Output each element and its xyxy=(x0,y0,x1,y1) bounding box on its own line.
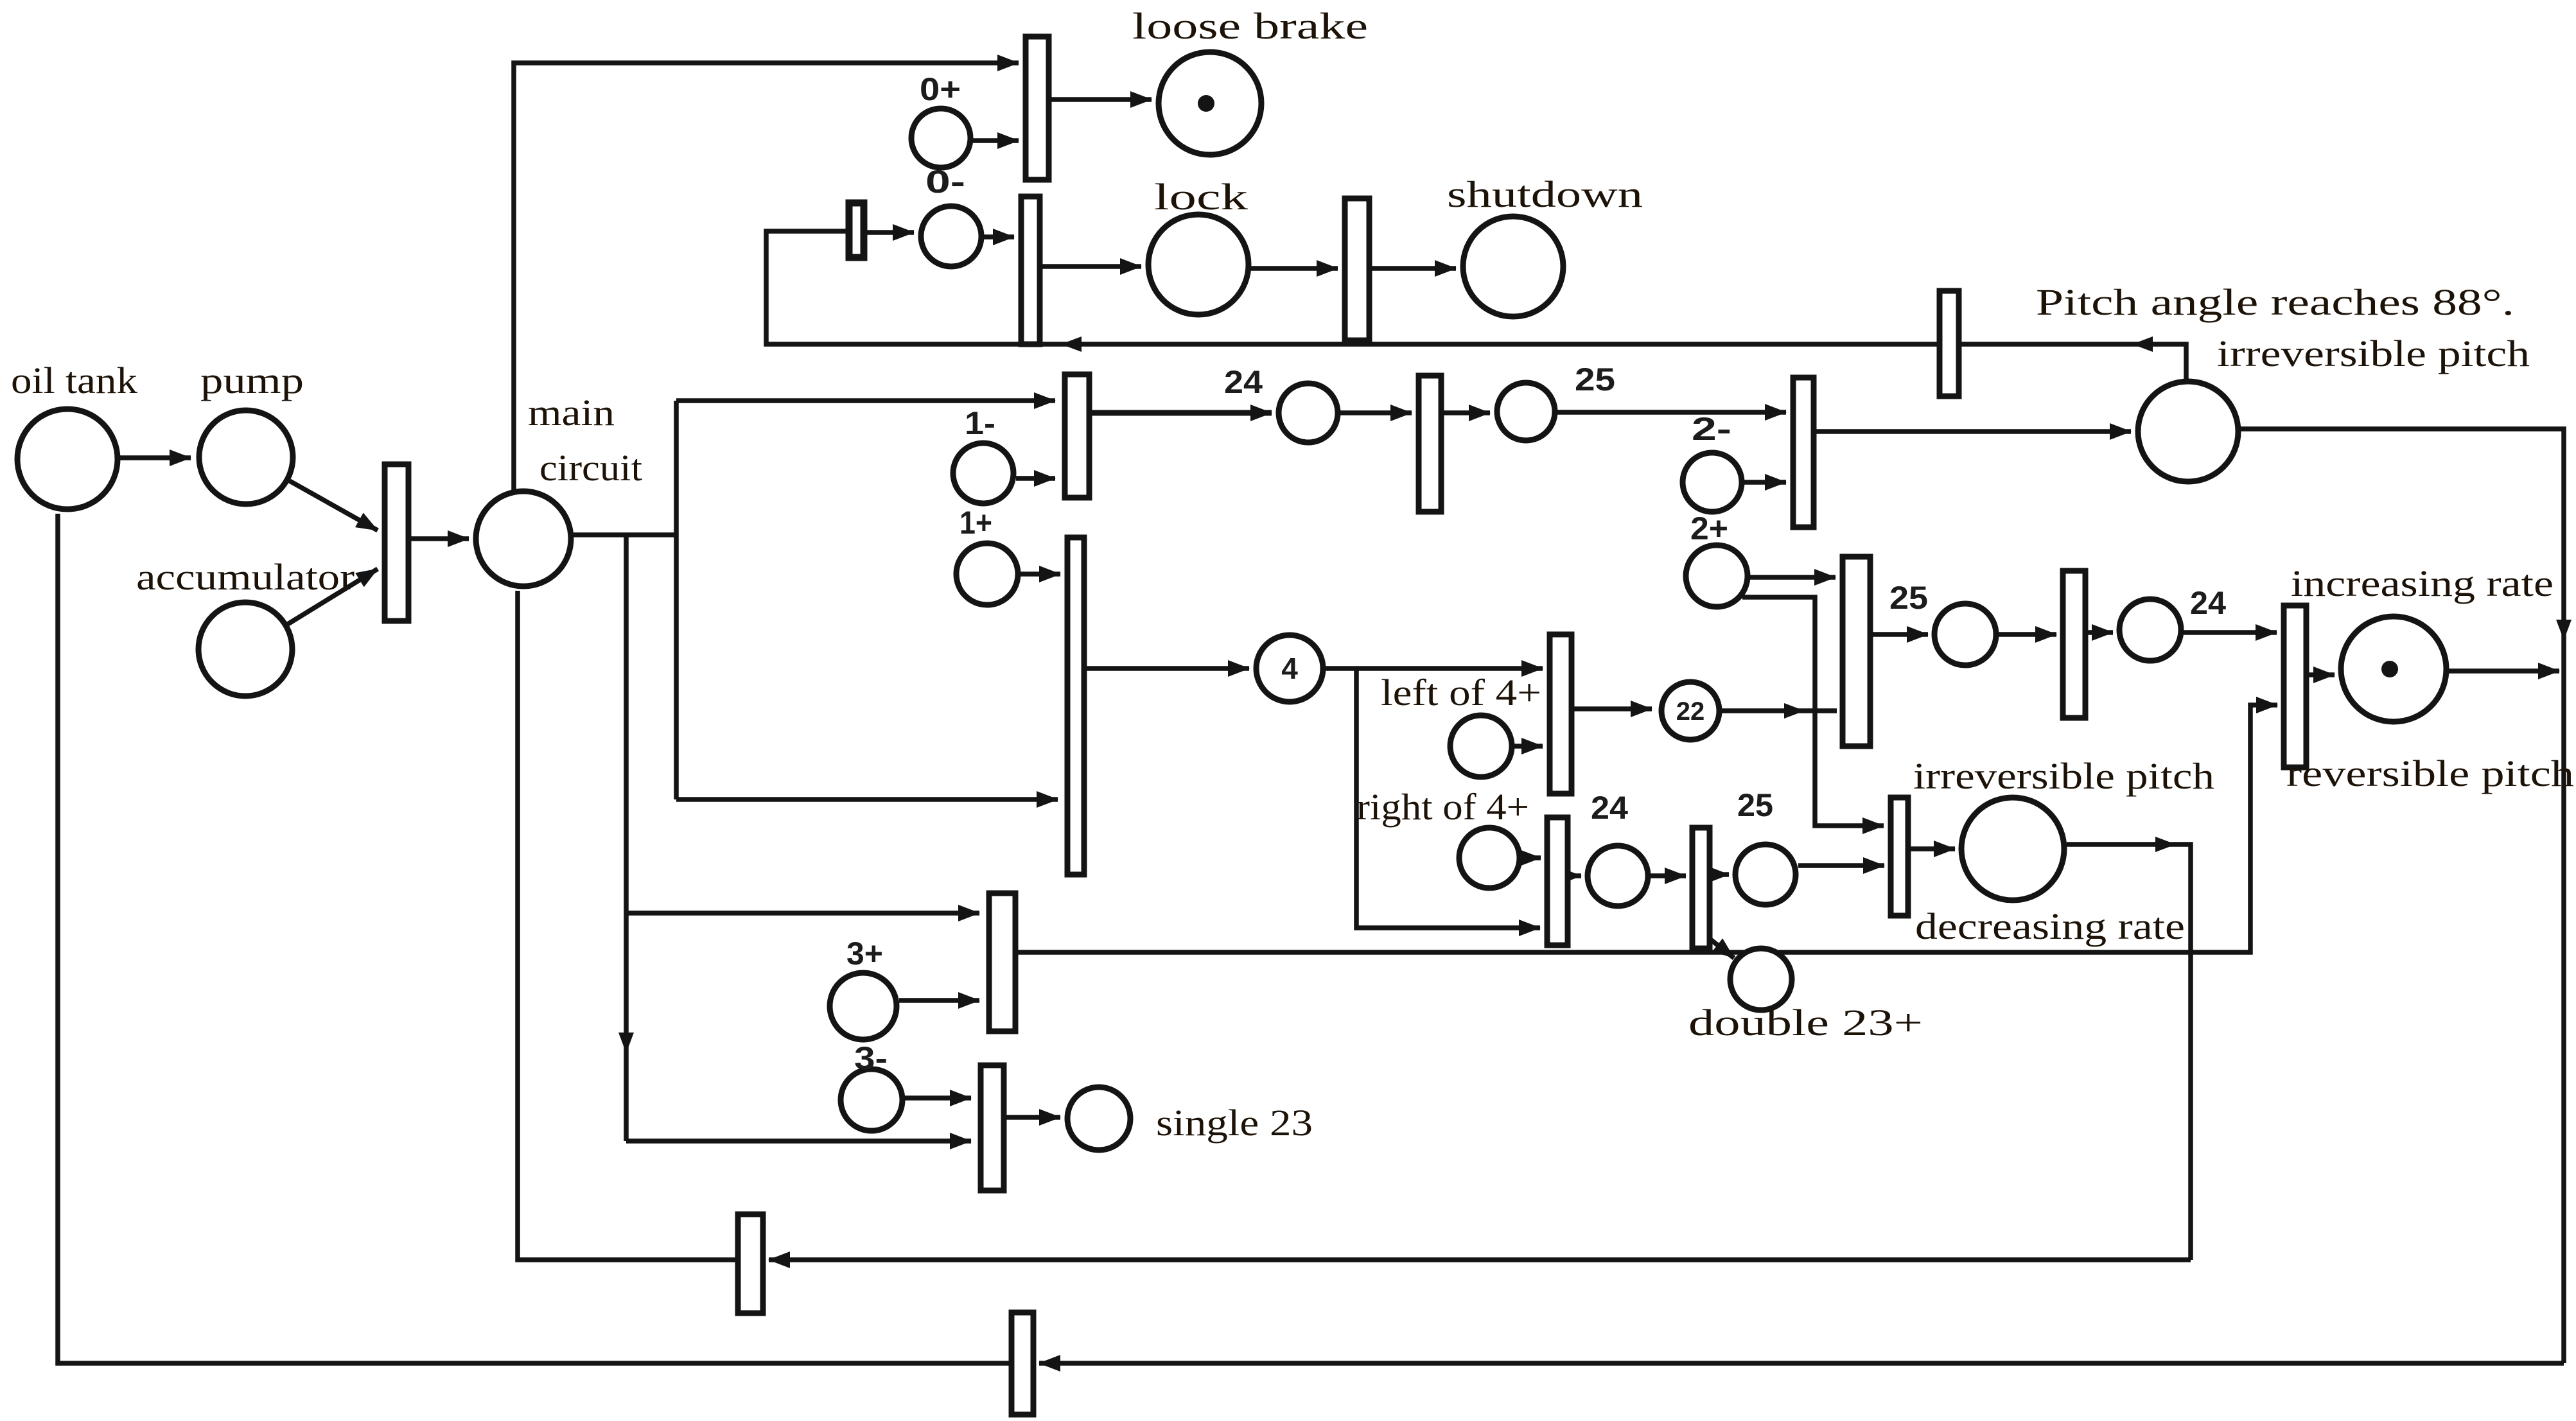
place 4 xyxy=(1256,635,1323,702)
place shutdown xyxy=(1463,216,1563,317)
place pump xyxy=(199,410,293,504)
place 25 mid xyxy=(1934,604,1996,665)
svg-text:24: 24 xyxy=(1591,790,1628,826)
transition refill 0- xyxy=(849,203,864,257)
place increasing rate xyxy=(2341,616,2446,722)
wire feedback to return main transition xyxy=(769,1257,2191,1262)
svg-text:left of 4+: left of 4+ xyxy=(1381,672,1541,713)
transition left of 4+ xyxy=(1550,634,1572,794)
place 25 top xyxy=(1497,383,1555,440)
place 2- xyxy=(1683,453,1742,512)
wire shutdown transition to shutdown xyxy=(1372,266,1456,271)
wire 0+ to loose brake transition xyxy=(973,138,1019,143)
wire increasing rate to right rail xyxy=(2449,668,2559,674)
wire trunk to 1+ transition xyxy=(676,797,1058,802)
place 3+ xyxy=(830,973,897,1040)
svg-text:loose brake: loose brake xyxy=(1132,5,1368,47)
svg-text:22: 22 xyxy=(1676,697,1705,726)
place 1+ xyxy=(956,543,1018,605)
svg-text:1+: 1+ xyxy=(959,505,992,541)
wire left of 4+ transition to 22 xyxy=(1574,706,1652,711)
place 24 mid xyxy=(2119,599,2181,661)
wire 25 mid to transition xyxy=(1999,632,2056,637)
wire 4 branch to right of 4+ transition xyxy=(1356,668,1540,928)
wire 2+ to decrease transition xyxy=(1742,597,1884,826)
svg-text:main: main xyxy=(528,392,615,433)
wire single 23 transition to place xyxy=(1006,1115,1060,1120)
token increasing rate xyxy=(2381,661,2398,677)
wire right of 4+ to transition xyxy=(1522,855,1541,860)
place accumulator xyxy=(198,602,292,696)
transition increase mid xyxy=(1843,557,1870,746)
svg-text:24: 24 xyxy=(1224,364,1263,400)
transition pitch angle reaches 88 xyxy=(1940,291,1959,396)
transition 24 to 25 top xyxy=(1419,376,1441,512)
svg-text:2+: 2+ xyxy=(1690,510,1728,546)
svg-text:pump: pump xyxy=(200,360,304,401)
svg-text:single 23: single 23 xyxy=(1156,1102,1313,1144)
svg-text:oil tank: oil tank xyxy=(11,360,137,401)
wire increase transition to 25 mid xyxy=(1873,632,1928,637)
wire 3- to transition xyxy=(905,1095,971,1101)
transition 3+ xyxy=(989,893,1015,1031)
place 0+ xyxy=(911,109,970,168)
transition pump-accumulator join xyxy=(385,464,408,621)
wire right of 4+ transition to 24 low xyxy=(1570,873,1581,878)
svg-text:3+: 3+ xyxy=(846,936,883,972)
transition 1- xyxy=(1065,374,1089,498)
wire 0- to lock transition xyxy=(984,234,1014,240)
wire irreversible pitch mid to mid rail xyxy=(2067,837,2191,1260)
token loose brake xyxy=(1198,95,1214,112)
wire 24 low to transition xyxy=(1651,873,1686,878)
svg-text:24: 24 xyxy=(2190,585,2226,621)
transition 25 to 24 mid xyxy=(2063,571,2085,718)
transition increasing rate xyxy=(2284,606,2306,767)
svg-text:3-: 3- xyxy=(854,1040,888,1076)
wire decrease transition to irreversible pitch mid xyxy=(1911,846,1955,851)
wire return main transition to main circuit xyxy=(518,591,735,1260)
wire feedback to refill transition xyxy=(766,231,1937,352)
transition lock xyxy=(1021,196,1040,344)
wire transition to 24 mid xyxy=(2088,630,2113,635)
wire left of 4+ to transition xyxy=(1514,744,1543,749)
svg-text:4: 4 xyxy=(1281,652,1298,685)
svg-text:1-: 1- xyxy=(965,405,995,441)
place loose brake xyxy=(1159,52,1261,155)
wire trunk to single 23 transition xyxy=(626,1138,971,1144)
svg-text:reversible pitch: reversible pitch xyxy=(2286,753,2574,794)
wire trunk south vertical xyxy=(618,535,634,1141)
place single 23 xyxy=(1067,1087,1130,1150)
wire 2- transition to irreversible pitch 88 xyxy=(1816,429,2131,434)
wire 2- to transition xyxy=(1744,480,1786,485)
svg-text:0-: 0- xyxy=(925,164,965,200)
svg-text:circuit: circuit xyxy=(539,447,642,489)
svg-text:accumulator: accumulator xyxy=(136,556,355,598)
place 1- xyxy=(953,443,1013,503)
wire branch trunk vertical xyxy=(674,401,679,799)
place 22 xyxy=(1661,682,1719,740)
svg-text:irreversible pitch: irreversible pitch xyxy=(1913,755,2214,797)
place right of 4+ xyxy=(1459,828,1520,888)
place 24 low xyxy=(1588,846,1648,906)
place irreversible pitch mid xyxy=(1961,798,2064,900)
place 3- xyxy=(841,1069,902,1131)
transition decrease xyxy=(1891,798,1908,916)
place main circuit xyxy=(476,491,571,586)
wire increasing rate transition to place xyxy=(2309,672,2335,677)
place 2+ xyxy=(1686,545,1748,607)
svg-text:25: 25 xyxy=(1889,580,1928,616)
wire 1+ transition to 4 xyxy=(1087,666,1249,671)
wire main circuit branch east xyxy=(574,532,676,537)
transition 2- xyxy=(1793,378,1814,527)
transition return to oil tank xyxy=(1012,1312,1033,1415)
transition 24 to 25 low xyxy=(1692,828,1710,948)
wire refill transition to 0- xyxy=(867,230,914,235)
transition 1+ xyxy=(1067,537,1084,875)
wire 1+ to transition xyxy=(1021,571,1060,577)
wire 24 top to transition xyxy=(1340,410,1412,415)
svg-text:increasing rate: increasing rate xyxy=(2291,562,2554,604)
wire transition to 25 top xyxy=(1444,410,1490,415)
svg-text:decreasing rate: decreasing rate xyxy=(1915,905,2185,947)
wire accumulator to join xyxy=(288,569,378,624)
wire 3+ transition to increasing rate transition xyxy=(1018,705,2277,952)
wire main circuit to loose brake transition xyxy=(514,63,1019,490)
transition return to main circuit xyxy=(738,1214,763,1313)
place oil tank xyxy=(17,409,118,509)
wire 25 low to decrease transition xyxy=(1798,863,1884,868)
wire join to main circuit xyxy=(411,536,469,541)
wire 4 to left of 4+ transition xyxy=(1326,666,1543,671)
wire 2+ to increase transition xyxy=(1750,575,1836,580)
wire transition to 25 low xyxy=(1712,872,1729,877)
place 25 low xyxy=(1735,844,1796,905)
transition loose brake xyxy=(1026,37,1049,180)
wire lock to shutdown transition xyxy=(1251,266,1338,271)
place irreversible pitch 88 xyxy=(2138,381,2238,482)
wire 1- to transition xyxy=(1016,476,1055,481)
svg-text:right of 4+: right of 4+ xyxy=(1356,786,1529,828)
wire irreversible pitch 88 to pitch transition xyxy=(1961,336,2186,379)
wire 22 to increase transition xyxy=(1722,703,1837,719)
svg-text:Pitch angle reaches 88°.: Pitch angle reaches 88°. xyxy=(2036,281,2514,323)
wire oil tank to pump xyxy=(120,455,191,460)
wire low transition to double 23+ xyxy=(1710,939,1734,958)
wire lock transition to lock xyxy=(1042,264,1141,269)
place double 23+ xyxy=(1730,948,1792,1010)
svg-text:lock: lock xyxy=(1154,176,1248,218)
wire irreversible pitch 88 to right rail xyxy=(2241,429,2572,1363)
wire trunk to 1- transition xyxy=(676,398,1055,403)
wire feedback to return oil transition xyxy=(1039,1361,2564,1366)
transition single 23 xyxy=(981,1065,1004,1190)
svg-text:0+: 0+ xyxy=(920,71,961,107)
transition lock to shutdown xyxy=(1345,198,1369,340)
transition right of 4+ xyxy=(1547,817,1568,945)
wire trunk to 3+ transition xyxy=(626,911,979,916)
svg-text:irreversible pitch: irreversible pitch xyxy=(2217,333,2530,374)
place lock xyxy=(1148,214,1249,315)
wire 1- transition to 24 top xyxy=(1092,410,1272,416)
svg-text:25: 25 xyxy=(1575,362,1615,397)
place left of 4+ xyxy=(1450,715,1512,777)
wire loose brake transition to place xyxy=(1051,97,1152,102)
svg-text:25: 25 xyxy=(1737,787,1773,823)
wire return oil transition to oil tank xyxy=(58,514,1009,1363)
place 24 top xyxy=(1279,383,1338,442)
wire 24 mid to increasing rate transition xyxy=(2184,630,2277,635)
svg-text:2-: 2- xyxy=(1692,411,1731,447)
wire pump to join xyxy=(290,481,378,530)
place 0- xyxy=(921,206,981,266)
svg-text:double 23+: double 23+ xyxy=(1688,1002,1923,1043)
wire 25 top to 2- transition xyxy=(1557,410,1786,415)
wire 3+ to transition xyxy=(899,998,979,1003)
svg-text:shutdown: shutdown xyxy=(1447,173,1643,215)
